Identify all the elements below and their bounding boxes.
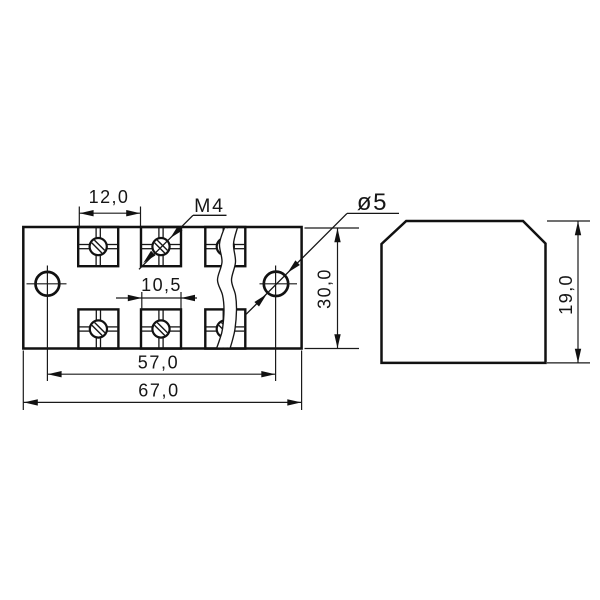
- terminal screw A3 (top row right, broken): [205, 227, 245, 266]
- svg-text:57,0: 57,0: [138, 353, 179, 373]
- dimension 30,0: [305, 228, 360, 349]
- terminal screw B3 (bottom row right, broken): [205, 309, 245, 348]
- svg-text:10,5: 10,5: [141, 275, 182, 295]
- terminal screw A1 (top row left): [78, 227, 118, 266]
- side view outline: [382, 221, 546, 363]
- dimension 67,0: [23, 351, 301, 411]
- dimension 19,0: [547, 221, 590, 363]
- svg-text:30,0: 30,0: [315, 268, 335, 309]
- svg-text:ø5: ø5: [357, 189, 388, 216]
- plate outline top view: [23, 227, 301, 349]
- dimension 57,0: [47, 353, 275, 378]
- svg-text:M4: M4: [194, 195, 225, 217]
- terminal screw A2 (top row middle): [141, 227, 181, 266]
- svg-text:12,0: 12,0: [89, 187, 130, 207]
- terminal screw B1 (bottom row left): [78, 309, 118, 348]
- thread callout M4: [139, 195, 227, 269]
- dimension 10,5: [116, 275, 197, 310]
- terminal screw B2 (bottom row middle): [141, 309, 181, 348]
- right mounting hole: [260, 266, 298, 382]
- svg-text:67,0: 67,0: [138, 381, 179, 401]
- svg-text:19,0: 19,0: [555, 274, 576, 315]
- left mounting hole: [27, 266, 67, 382]
- hole callout diameter 5: [245, 189, 399, 315]
- dimension 12,0: [79, 187, 140, 226]
- break line band: [217, 228, 238, 349]
